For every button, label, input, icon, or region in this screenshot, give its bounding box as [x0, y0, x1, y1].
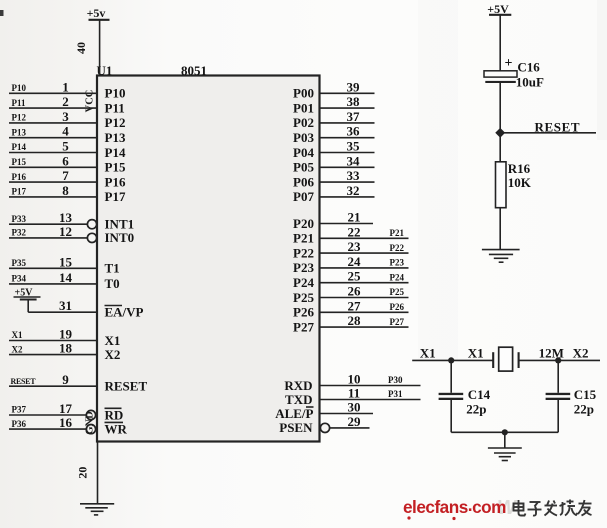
pin 7 P16: [9, 168, 126, 189]
overline on P: [306, 406, 314, 408]
pin 27 P26: [293, 298, 408, 319]
wire: [9, 340, 97, 342]
svg-text:P26: P26: [293, 305, 314, 320]
svg-text:24: 24: [348, 254, 362, 269]
svg-text:20: 20: [75, 467, 89, 479]
wire: [320, 122, 375, 124]
node junction ground: [502, 429, 508, 435]
wire: [9, 354, 97, 356]
pin 25 P24: [293, 269, 408, 290]
svg-text:28: 28: [348, 313, 362, 328]
top plate (hollow): [484, 71, 517, 77]
svg-text:1: 1: [62, 79, 69, 94]
svg-text:P20: P20: [293, 216, 314, 231]
wire C16 to junction: [499, 83, 501, 133]
right plate: [518, 352, 520, 368]
svg-text:11: 11: [348, 386, 360, 401]
svg-text:P04: P04: [293, 145, 314, 160]
pin 31 EA/VP: [28, 298, 143, 319]
svg-text:P13: P13: [12, 127, 27, 137]
svg-text:P17: P17: [12, 187, 27, 197]
pin 3 P12: [9, 109, 125, 130]
wire: [9, 137, 97, 139]
power +5V (EA/VP pull-up): [14, 287, 41, 312]
svg-text:21: 21: [348, 210, 361, 225]
watermark text 电: [514, 500, 526, 516]
pin 36 P03: [293, 124, 374, 145]
wire: [9, 181, 97, 183]
wire pin 20 to ground: [97, 442, 99, 504]
inversion bubble: [86, 425, 95, 434]
svg-text:X2: X2: [573, 345, 589, 360]
svg-text:WR: WR: [105, 421, 128, 436]
wire: [320, 166, 375, 168]
svg-text:P15: P15: [105, 160, 126, 175]
pin 4 P13: [9, 124, 126, 145]
svg-text:P15: P15: [12, 157, 27, 167]
pin 26 P25: [293, 284, 408, 305]
svg-text:15: 15: [59, 254, 73, 269]
wire: [9, 267, 97, 269]
svg-text:P24: P24: [390, 272, 405, 282]
pin 15 T1: [9, 254, 120, 275]
svg-text:3: 3: [62, 109, 69, 124]
wire: [9, 283, 97, 285]
wire: [9, 122, 97, 124]
pin 11 TXD: [285, 386, 420, 407]
inversion bubble: [86, 410, 95, 419]
svg-text:P06: P06: [293, 174, 314, 189]
pin 8 P17: [9, 183, 126, 204]
wire: [330, 427, 370, 429]
svg-text:EA/VP: EA/VP: [105, 305, 144, 320]
svg-text:P11: P11: [105, 100, 125, 115]
overline on RD: [105, 407, 122, 409]
wire: [320, 196, 375, 198]
svg-text:P25: P25: [390, 287, 405, 297]
svg-text:C14: C14: [468, 387, 491, 402]
svg-text:X1: X1: [105, 333, 121, 348]
svg-text:P12: P12: [12, 113, 27, 123]
pin 13 INT1: [9, 210, 134, 231]
svg-text:2: 2: [62, 94, 69, 109]
wire: [320, 237, 409, 239]
svg-text:39: 39: [347, 79, 361, 94]
svg-text:P26: P26: [390, 302, 405, 312]
svg-text:P02: P02: [293, 115, 314, 130]
svg-text:35: 35: [347, 139, 361, 154]
pin 14 T0: [9, 270, 120, 291]
svg-text:10: 10: [348, 372, 361, 387]
svg-text:P12: P12: [105, 115, 126, 130]
svg-text:36: 36: [347, 124, 361, 139]
svg-text:P17: P17: [105, 189, 126, 204]
svg-text:P21: P21: [293, 231, 314, 246]
pin 24 P23: [293, 254, 408, 275]
wire X2 junction down to C15: [557, 360, 559, 392]
svg-text:P14: P14: [12, 142, 27, 152]
svg-text:P37: P37: [12, 405, 27, 415]
ground (reset circuit): [482, 250, 520, 263]
pin 30 ALE/P: [275, 400, 373, 421]
left plate: [492, 352, 494, 368]
svg-text:10uF: 10uF: [516, 75, 544, 90]
wire: [320, 252, 409, 254]
wire: [9, 428, 87, 430]
inversion bubble: [87, 220, 96, 229]
svg-text:X1: X1: [468, 345, 484, 360]
svg-text:R16: R16: [508, 161, 531, 176]
svg-text:P21: P21: [390, 228, 405, 238]
svg-text:P10: P10: [105, 86, 126, 101]
ground (crystal circuit): [488, 448, 522, 461]
svg-text:38: 38: [347, 94, 361, 109]
watermark text 发: [545, 501, 558, 516]
svg-text:T0: T0: [105, 276, 120, 291]
svg-text:P33: P33: [12, 214, 27, 224]
svg-text:P31: P31: [388, 389, 403, 399]
svg-text:8: 8: [62, 183, 69, 198]
wire: [9, 92, 97, 94]
pin 33 P06: [293, 168, 374, 189]
svg-text:26: 26: [348, 284, 362, 299]
svg-text:17: 17: [59, 401, 73, 416]
pin 19 X1: [9, 327, 120, 348]
watermark text 友: [578, 500, 592, 516]
pin 22 P21: [293, 224, 408, 245]
wire: [320, 152, 375, 154]
IC U1 8051 body: [97, 76, 320, 442]
underline: [14, 296, 41, 298]
svg-text:32: 32: [347, 183, 360, 198]
svg-text:P30: P30: [388, 375, 403, 385]
wire: [9, 237, 88, 239]
svg-text:P16: P16: [105, 174, 126, 189]
wire: [320, 413, 374, 415]
svg-text:P27: P27: [293, 319, 314, 334]
scan band (subtle): [418, 0, 458, 360]
wire junction to R16: [499, 133, 501, 162]
wire R16 to ground: [499, 208, 501, 250]
svg-text:23: 23: [348, 239, 362, 254]
capacitor C15: [546, 387, 597, 417]
pin 6 P15: [9, 153, 126, 174]
svg-text:RD: RD: [105, 407, 124, 422]
wire: [320, 297, 409, 299]
svg-text:P36: P36: [12, 419, 27, 429]
svg-text:PSEN: PSEN: [279, 420, 313, 435]
wire: [320, 385, 421, 387]
svg-text:P13: P13: [105, 130, 126, 145]
svg-text:+: +: [505, 56, 513, 71]
svg-text:4: 4: [62, 124, 69, 139]
svg-text:+5v: +5v: [87, 6, 106, 20]
pin 37 P02: [293, 109, 374, 130]
svg-text:X2: X2: [12, 344, 23, 354]
svg-text:C16: C16: [517, 59, 540, 74]
watermark text 烧: [560, 500, 578, 516]
wire to ground: [504, 432, 506, 448]
svg-text:31: 31: [59, 298, 72, 313]
wire bottom rail: [451, 431, 558, 433]
+5V bar: [20, 298, 37, 300]
wire: [9, 196, 97, 198]
svg-text:INT0: INT0: [105, 230, 135, 245]
svg-text:RXD: RXD: [284, 378, 312, 393]
svg-text:40: 40: [74, 42, 88, 54]
svg-text:7: 7: [62, 168, 69, 183]
capacitor C14: [439, 387, 491, 417]
watermark text 子: [528, 502, 542, 516]
svg-text:P07: P07: [293, 189, 314, 204]
wire: [320, 92, 375, 94]
svg-text:RESET: RESET: [11, 377, 37, 386]
svg-text:14: 14: [59, 270, 73, 285]
wire RESET net: [500, 132, 596, 134]
wire: [28, 311, 97, 313]
svg-text:TXD: TXD: [285, 392, 312, 407]
wire: [9, 385, 97, 387]
svg-text:P34: P34: [12, 274, 27, 284]
svg-text:C15: C15: [574, 387, 597, 402]
pin 16 WR: [9, 415, 128, 436]
wire: [320, 181, 375, 183]
svg-text:P10: P10: [12, 83, 27, 93]
pin 2 P11: [9, 94, 125, 115]
pin 5 P14: [9, 139, 126, 160]
pin 23 P22: [293, 239, 408, 260]
svg-text:P25: P25: [293, 290, 314, 305]
inversion bubble: [320, 423, 329, 432]
svg-text:ALE/P: ALE/P: [275, 406, 313, 421]
svg-text:P00: P00: [293, 86, 314, 101]
wire: [320, 267, 409, 269]
svg-text:X2: X2: [105, 347, 121, 362]
wire: [9, 414, 87, 416]
svg-text:18: 18: [59, 341, 73, 356]
scan artifact mark top-left: [0, 10, 4, 16]
logo flourish dot under f: [452, 517, 455, 520]
capacitor C16 (polarized): [484, 56, 544, 90]
wire: [320, 107, 375, 109]
wire: [320, 223, 374, 225]
wire: [320, 399, 421, 401]
wire: [9, 223, 88, 225]
crystal Y1 12M: [493, 347, 518, 371]
svg-text:P22: P22: [390, 243, 405, 253]
ground (chip GND): [80, 504, 114, 515]
svg-text:X1: X1: [12, 330, 23, 340]
svg-text:27: 27: [348, 298, 362, 313]
wire: [9, 166, 97, 168]
svg-text:9: 9: [62, 372, 69, 387]
wire crystal to X2: [519, 359, 600, 361]
svg-text:P05: P05: [293, 160, 314, 175]
inversion bubble: [87, 233, 96, 242]
svg-text:37: 37: [347, 109, 361, 124]
svg-text:GND: GND: [85, 411, 96, 435]
svg-text:6: 6: [62, 153, 69, 168]
wire X1 junction down to C14: [450, 360, 452, 392]
svg-text:16: 16: [59, 415, 73, 430]
svg-text:P27: P27: [390, 317, 405, 327]
pin 38 P01: [293, 94, 374, 115]
wire X1 to crystal: [412, 359, 493, 361]
svg-text:P23: P23: [390, 258, 405, 268]
svg-text:elecfans.com: elecfans.com: [403, 495, 506, 517]
node RESET junction: [495, 128, 505, 138]
pin 17 RD: [9, 401, 123, 422]
pin 21 P20: [293, 210, 373, 231]
wire C14 to bottom rail: [450, 400, 452, 432]
svg-text:P32: P32: [12, 228, 27, 238]
scan band right edge (subtle): [597, 0, 607, 140]
svg-text:34: 34: [347, 153, 361, 168]
wire +5V to pin 40: [99, 20, 101, 76]
wire C15 to bottom rail: [557, 400, 559, 432]
svg-text:P14: P14: [105, 145, 126, 160]
svg-text:5: 5: [62, 139, 69, 154]
pin 9 RESET: [9, 372, 147, 393]
pin 39 P00: [293, 79, 374, 100]
pin 28 P27: [293, 313, 408, 334]
wire +5V to C16: [499, 15, 501, 71]
svg-text:10K: 10K: [508, 175, 532, 190]
svg-text:12: 12: [59, 224, 72, 239]
pin 34 P05: [293, 153, 374, 174]
resistor R16: [496, 161, 532, 208]
pin 1 P10: [9, 79, 125, 100]
svg-text:22p: 22p: [574, 402, 594, 417]
wire: [320, 311, 409, 313]
svg-text:P22: P22: [293, 245, 314, 260]
wire: [320, 137, 375, 139]
svg-text:P16: P16: [12, 172, 27, 182]
svg-text:X1: X1: [420, 345, 436, 360]
+5V bar: [89, 19, 110, 21]
svg-text:T1: T1: [105, 261, 120, 276]
svg-text:P24: P24: [293, 275, 314, 290]
svg-text:29: 29: [348, 414, 362, 429]
svg-text:22p: 22p: [466, 402, 486, 417]
svg-text:33: 33: [347, 168, 361, 183]
svg-text:22: 22: [348, 224, 361, 239]
wire: [9, 152, 97, 154]
pin 29 PSEN: [279, 414, 369, 435]
pin 32 P07: [293, 183, 374, 204]
svg-text:P03: P03: [293, 130, 314, 145]
wire +5V down: [27, 300, 29, 313]
wire: [320, 326, 409, 328]
pin 10 RXD: [284, 372, 420, 393]
svg-text:P23: P23: [293, 260, 314, 275]
logo flourish dot under e: [407, 516, 410, 519]
svg-text:25: 25: [348, 269, 362, 284]
bottom plate: [485, 81, 516, 83]
pin 18 X2: [9, 341, 120, 362]
wire: [9, 107, 97, 109]
node junction X2/C15: [555, 357, 561, 363]
pin 35 P04: [293, 139, 374, 160]
pin 12 INT0: [9, 224, 134, 245]
wire: [320, 282, 409, 284]
svg-text:19: 19: [59, 327, 73, 342]
overline on WR: [105, 421, 124, 423]
svg-text:P35: P35: [12, 258, 27, 268]
svg-text:P01: P01: [293, 100, 314, 115]
svg-text:RESET: RESET: [105, 379, 148, 394]
crystal body: [499, 347, 513, 371]
svg-text:30: 30: [348, 400, 361, 415]
+5V bar: [489, 14, 511, 16]
svg-text:8051: 8051: [181, 63, 207, 78]
svg-text:P11: P11: [12, 98, 27, 108]
node junction X1/C14: [448, 357, 454, 363]
overline on EA: [105, 305, 123, 307]
